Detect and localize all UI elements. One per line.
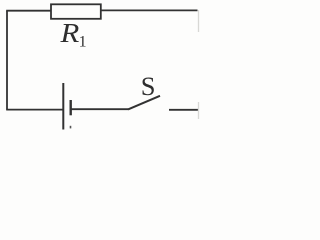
- svg-text:1: 1: [79, 33, 87, 50]
- wire switch right: [169, 109, 198, 111]
- switch S blade: [128, 96, 160, 110]
- svg-text:S: S: [141, 71, 156, 101]
- wire battery to switch: [71, 108, 129, 110]
- wire right edge faint stub top: [198, 10, 200, 32]
- wire right edge faint stub bottom: [198, 102, 200, 119]
- resistor R1: [51, 4, 101, 18]
- battery short plate (negative): [69, 100, 71, 115]
- battery long plate (positive): [62, 83, 64, 130]
- svg-text:R: R: [59, 17, 79, 48]
- wire left vertical: [6, 11, 8, 110]
- wire bottom-left horizontal: [6, 109, 63, 111]
- wire top-left horizontal: [6, 10, 51, 12]
- speck below battery: [70, 126, 72, 129]
- wire top-right horizontal: [101, 9, 198, 11]
